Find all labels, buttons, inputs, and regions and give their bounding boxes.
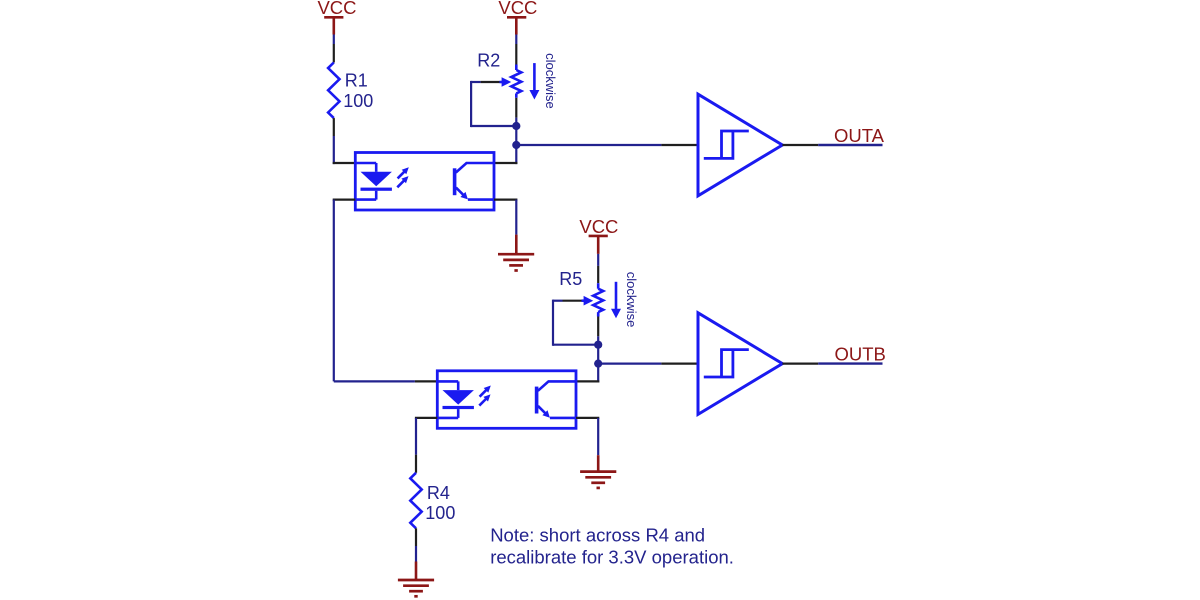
wire node to opto U2 collector bbox=[597, 364, 599, 383]
wire opto U2 emitter to ground bbox=[576, 418, 599, 472]
resistor R1 bbox=[328, 63, 339, 119]
opto U2 LED bbox=[437, 381, 474, 418]
potentiometer R2 bbox=[511, 70, 521, 93]
wire VCC to R1 bbox=[333, 35, 335, 63]
svg-text:R1: R1 bbox=[345, 70, 368, 90]
power symbol VCC (net VCC, top-left) bbox=[317, 0, 356, 35]
svg-text:VCC: VCC bbox=[317, 0, 356, 18]
ground (under opto U1) bbox=[498, 254, 534, 270]
wire R5 wiper loop bbox=[553, 300, 598, 346]
junction node (wiper/R2 bottom) bbox=[512, 122, 520, 130]
opto U1 LED bbox=[355, 163, 392, 200]
wire R5 bottom to node bbox=[597, 312, 600, 345]
wire schmitt B output bbox=[782, 363, 882, 365]
schmitt trigger buffer A bbox=[698, 94, 782, 196]
wire schmitt A output bbox=[782, 144, 882, 146]
wire R4 to ground bbox=[415, 528, 417, 580]
svg-text:recalibrate for 3.3V operation: recalibrate for 3.3V operation. bbox=[490, 547, 734, 568]
potentiometer R5 bbox=[593, 289, 603, 312]
wire node to node bbox=[597, 345, 599, 364]
svg-text:VCC: VCC bbox=[579, 216, 618, 237]
svg-text:R2: R2 bbox=[477, 50, 500, 70]
junction node (schmitt input A) bbox=[512, 141, 520, 149]
svg-text:clockwise: clockwise bbox=[624, 272, 639, 328]
wire VCC to R5 bbox=[597, 254, 599, 289]
svg-text:100: 100 bbox=[343, 91, 373, 111]
junction node (wiper/R5 bottom) bbox=[594, 341, 602, 349]
wire R1 to optocoupler anode bbox=[333, 118, 356, 164]
note text bbox=[490, 524, 734, 567]
R5 wiper arrow bbox=[582, 296, 594, 306]
label R1 100 bbox=[343, 70, 373, 110]
power symbol VCC (above R5) bbox=[579, 216, 618, 254]
schmitt trigger buffer B bbox=[698, 313, 782, 415]
wire node to schmitt input bbox=[516, 144, 698, 146]
label R4 100 bbox=[425, 483, 455, 523]
wire opto U1 cathode to opto U2 anode bbox=[333, 200, 438, 382]
wire node to node bbox=[515, 126, 517, 145]
svg-text:Note: short across R4 and: Note: short across R4 and bbox=[490, 524, 705, 545]
R2 wiper arrow bbox=[500, 77, 512, 87]
svg-text:OUTB: OUTB bbox=[835, 343, 886, 364]
optocoupler U2 box bbox=[437, 371, 576, 429]
wire opto U1 emitter to ground bbox=[494, 200, 517, 254]
power symbol VCC (above R2) bbox=[498, 0, 537, 35]
opto U1 phototransistor bbox=[453, 163, 494, 200]
clockwise arrow (R2) bbox=[529, 63, 539, 99]
wire VCC to R2 bbox=[515, 35, 517, 71]
svg-text:VCC: VCC bbox=[498, 0, 537, 18]
clockwise arrow (R5) bbox=[611, 282, 621, 318]
svg-text:clockwise: clockwise bbox=[543, 53, 558, 109]
ground (under opto U2) bbox=[580, 472, 616, 488]
wire R2 bottom to node bbox=[515, 93, 518, 126]
wire node to opto collector bbox=[515, 145, 517, 164]
optocoupler U1 box bbox=[355, 153, 494, 211]
opto U2 light arrows bbox=[479, 386, 491, 406]
junction node (schmitt input B) bbox=[594, 360, 602, 368]
svg-text:OUTA: OUTA bbox=[834, 125, 885, 146]
wire R2 wiper loop bbox=[471, 81, 516, 127]
opto U1 light arrows bbox=[397, 167, 409, 187]
wire opto U2 cathode to R4 bbox=[415, 418, 437, 473]
wire node to schmitt B input bbox=[598, 363, 698, 365]
ground (under R4) bbox=[398, 580, 434, 596]
svg-text:100: 100 bbox=[425, 503, 455, 523]
resistor R4 bbox=[410, 473, 421, 529]
svg-text:R4: R4 bbox=[427, 483, 450, 503]
svg-text:R5: R5 bbox=[559, 269, 582, 289]
opto U2 phototransistor bbox=[535, 381, 576, 418]
